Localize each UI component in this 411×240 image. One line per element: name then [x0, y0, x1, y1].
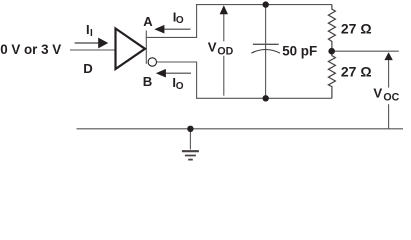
svg-text:27 Ω: 27 Ω [341, 21, 372, 37]
svg-text:27 Ω: 27 Ω [341, 63, 372, 79]
svg-text:OD: OD [217, 46, 233, 58]
svg-text:OC: OC [383, 91, 399, 103]
svg-text:0 V or 3 V: 0 V or 3 V [0, 42, 61, 57]
svg-text:V: V [208, 40, 217, 55]
svg-text:O: O [176, 81, 184, 92]
svg-text:D: D [83, 61, 93, 76]
svg-text:50 pF: 50 pF [282, 44, 317, 59]
svg-text:V: V [373, 85, 382, 100]
svg-text:B: B [143, 74, 153, 89]
svg-text:O: O [176, 15, 184, 26]
svg-text:I: I [90, 28, 93, 39]
svg-text:A: A [143, 14, 153, 29]
